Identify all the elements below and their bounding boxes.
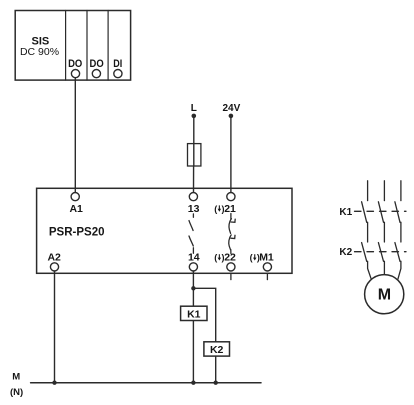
terminal M1	[263, 263, 271, 271]
terminal 14	[189, 263, 197, 271]
contactor K2 blade phase 1	[362, 243, 367, 262]
module divider 2	[86, 11, 88, 81]
svg-text:(: (	[250, 253, 253, 263]
terminal 21	[227, 193, 235, 201]
motor M	[365, 275, 404, 314]
terminal 22	[227, 263, 235, 271]
svg-text:A2: A2	[47, 252, 61, 264]
contact 21-22 upper lead	[230, 214, 232, 220]
K2 linkage dashed line	[355, 251, 407, 253]
svg-text:(: (	[214, 204, 217, 214]
contact 21-22 blade 2	[229, 235, 231, 250]
controller module SIS block	[15, 11, 130, 81]
coil K1	[181, 306, 207, 320]
terminal DO1	[71, 70, 79, 78]
svg-text:K2: K2	[210, 344, 224, 356]
svg-text:K2: K2	[339, 247, 352, 258]
neutral bus M(N)	[31, 382, 261, 384]
junction K2 on bus	[214, 381, 218, 385]
svg-text:21: 21	[224, 203, 236, 215]
phase line 3 upper	[400, 181, 402, 201]
svg-text:DC 90%: DC 90%	[20, 46, 59, 58]
contactor K2 blade phase 2	[378, 243, 383, 262]
phase line 2 middle	[383, 222, 385, 242]
wire fuse to terminal 13	[193, 166, 195, 192]
wire phase 3 to motor	[398, 261, 401, 279]
contactor K2 blade phase 3	[395, 243, 400, 262]
stub below terminal 22	[230, 273, 232, 279]
contact 21-22 lower lead	[230, 250, 232, 254]
terminal A1	[71, 193, 79, 201]
svg-text:M: M	[12, 371, 20, 382]
node L supply dot	[192, 114, 197, 119]
svg-text:PSR-PS20: PSR-PS20	[49, 226, 105, 238]
wire 14 down to bus	[192, 271, 194, 383]
terminal A2	[50, 263, 58, 271]
contact 21-22 seat 1	[231, 219, 235, 222]
contact 21-22 seat 2	[231, 235, 235, 238]
svg-text:(N): (N)	[10, 387, 23, 398]
svg-text:22: 22	[224, 252, 236, 264]
safety relay U1 PSR-PS20 body	[37, 188, 292, 273]
node 24V supply dot	[229, 114, 234, 119]
wire branch to K2	[193, 288, 215, 382]
contact 13-14 upper lead	[192, 214, 194, 217]
contact 13-14 blade 2	[189, 236, 193, 246]
svg-text:K1: K1	[187, 308, 201, 320]
svg-text:DO: DO	[90, 58, 105, 70]
junction 14 branch	[191, 286, 195, 290]
svg-text:L: L	[191, 103, 197, 114]
phase line 2 upper	[383, 181, 385, 201]
phase line 3 middle	[400, 222, 402, 242]
wire DO1 to A1	[74, 78, 76, 192]
terminal DI	[114, 70, 122, 78]
junction A2 on bus	[52, 381, 56, 385]
contact 21-22 blade 1	[229, 219, 231, 234]
module divider 1	[65, 11, 67, 81]
module divider 3	[107, 11, 109, 81]
contactor K1 blade phase 1	[362, 202, 367, 223]
wire A2 to neutral bus	[54, 271, 56, 383]
svg-text:24V: 24V	[223, 103, 241, 114]
wire through fuse	[193, 144, 195, 166]
fuse F1	[188, 144, 201, 166]
contactor K1 blade phase 2	[378, 202, 383, 223]
K1 linkage dashed line	[355, 210, 407, 212]
stub below terminal M1	[266, 273, 268, 279]
junction K1 on bus	[191, 381, 195, 385]
svg-text:13: 13	[188, 203, 200, 215]
contact 13-14 blade 1	[189, 221, 193, 231]
svg-text:A1: A1	[69, 203, 83, 215]
svg-text:K1: K1	[339, 207, 352, 218]
terminal 13	[189, 193, 197, 201]
wire 24V to terminal 21	[230, 116, 232, 192]
svg-text:(: (	[214, 253, 217, 263]
svg-text:M1: M1	[259, 252, 274, 264]
svg-text:M: M	[378, 286, 391, 303]
phase line 1 upper	[367, 181, 369, 201]
coil K2	[204, 342, 230, 356]
contact 13-14 lower lead	[192, 248, 194, 254]
terminal DO2	[92, 70, 100, 78]
svg-text:DO: DO	[68, 58, 83, 70]
contactor K1 blade phase 3	[395, 202, 400, 223]
wire phase 1 to motor	[368, 261, 371, 278]
svg-text:DI: DI	[113, 58, 122, 70]
phase line 1 middle	[367, 222, 369, 242]
wire L to fuse	[193, 116, 195, 144]
wire phase 2 to motor	[383, 261, 385, 274]
